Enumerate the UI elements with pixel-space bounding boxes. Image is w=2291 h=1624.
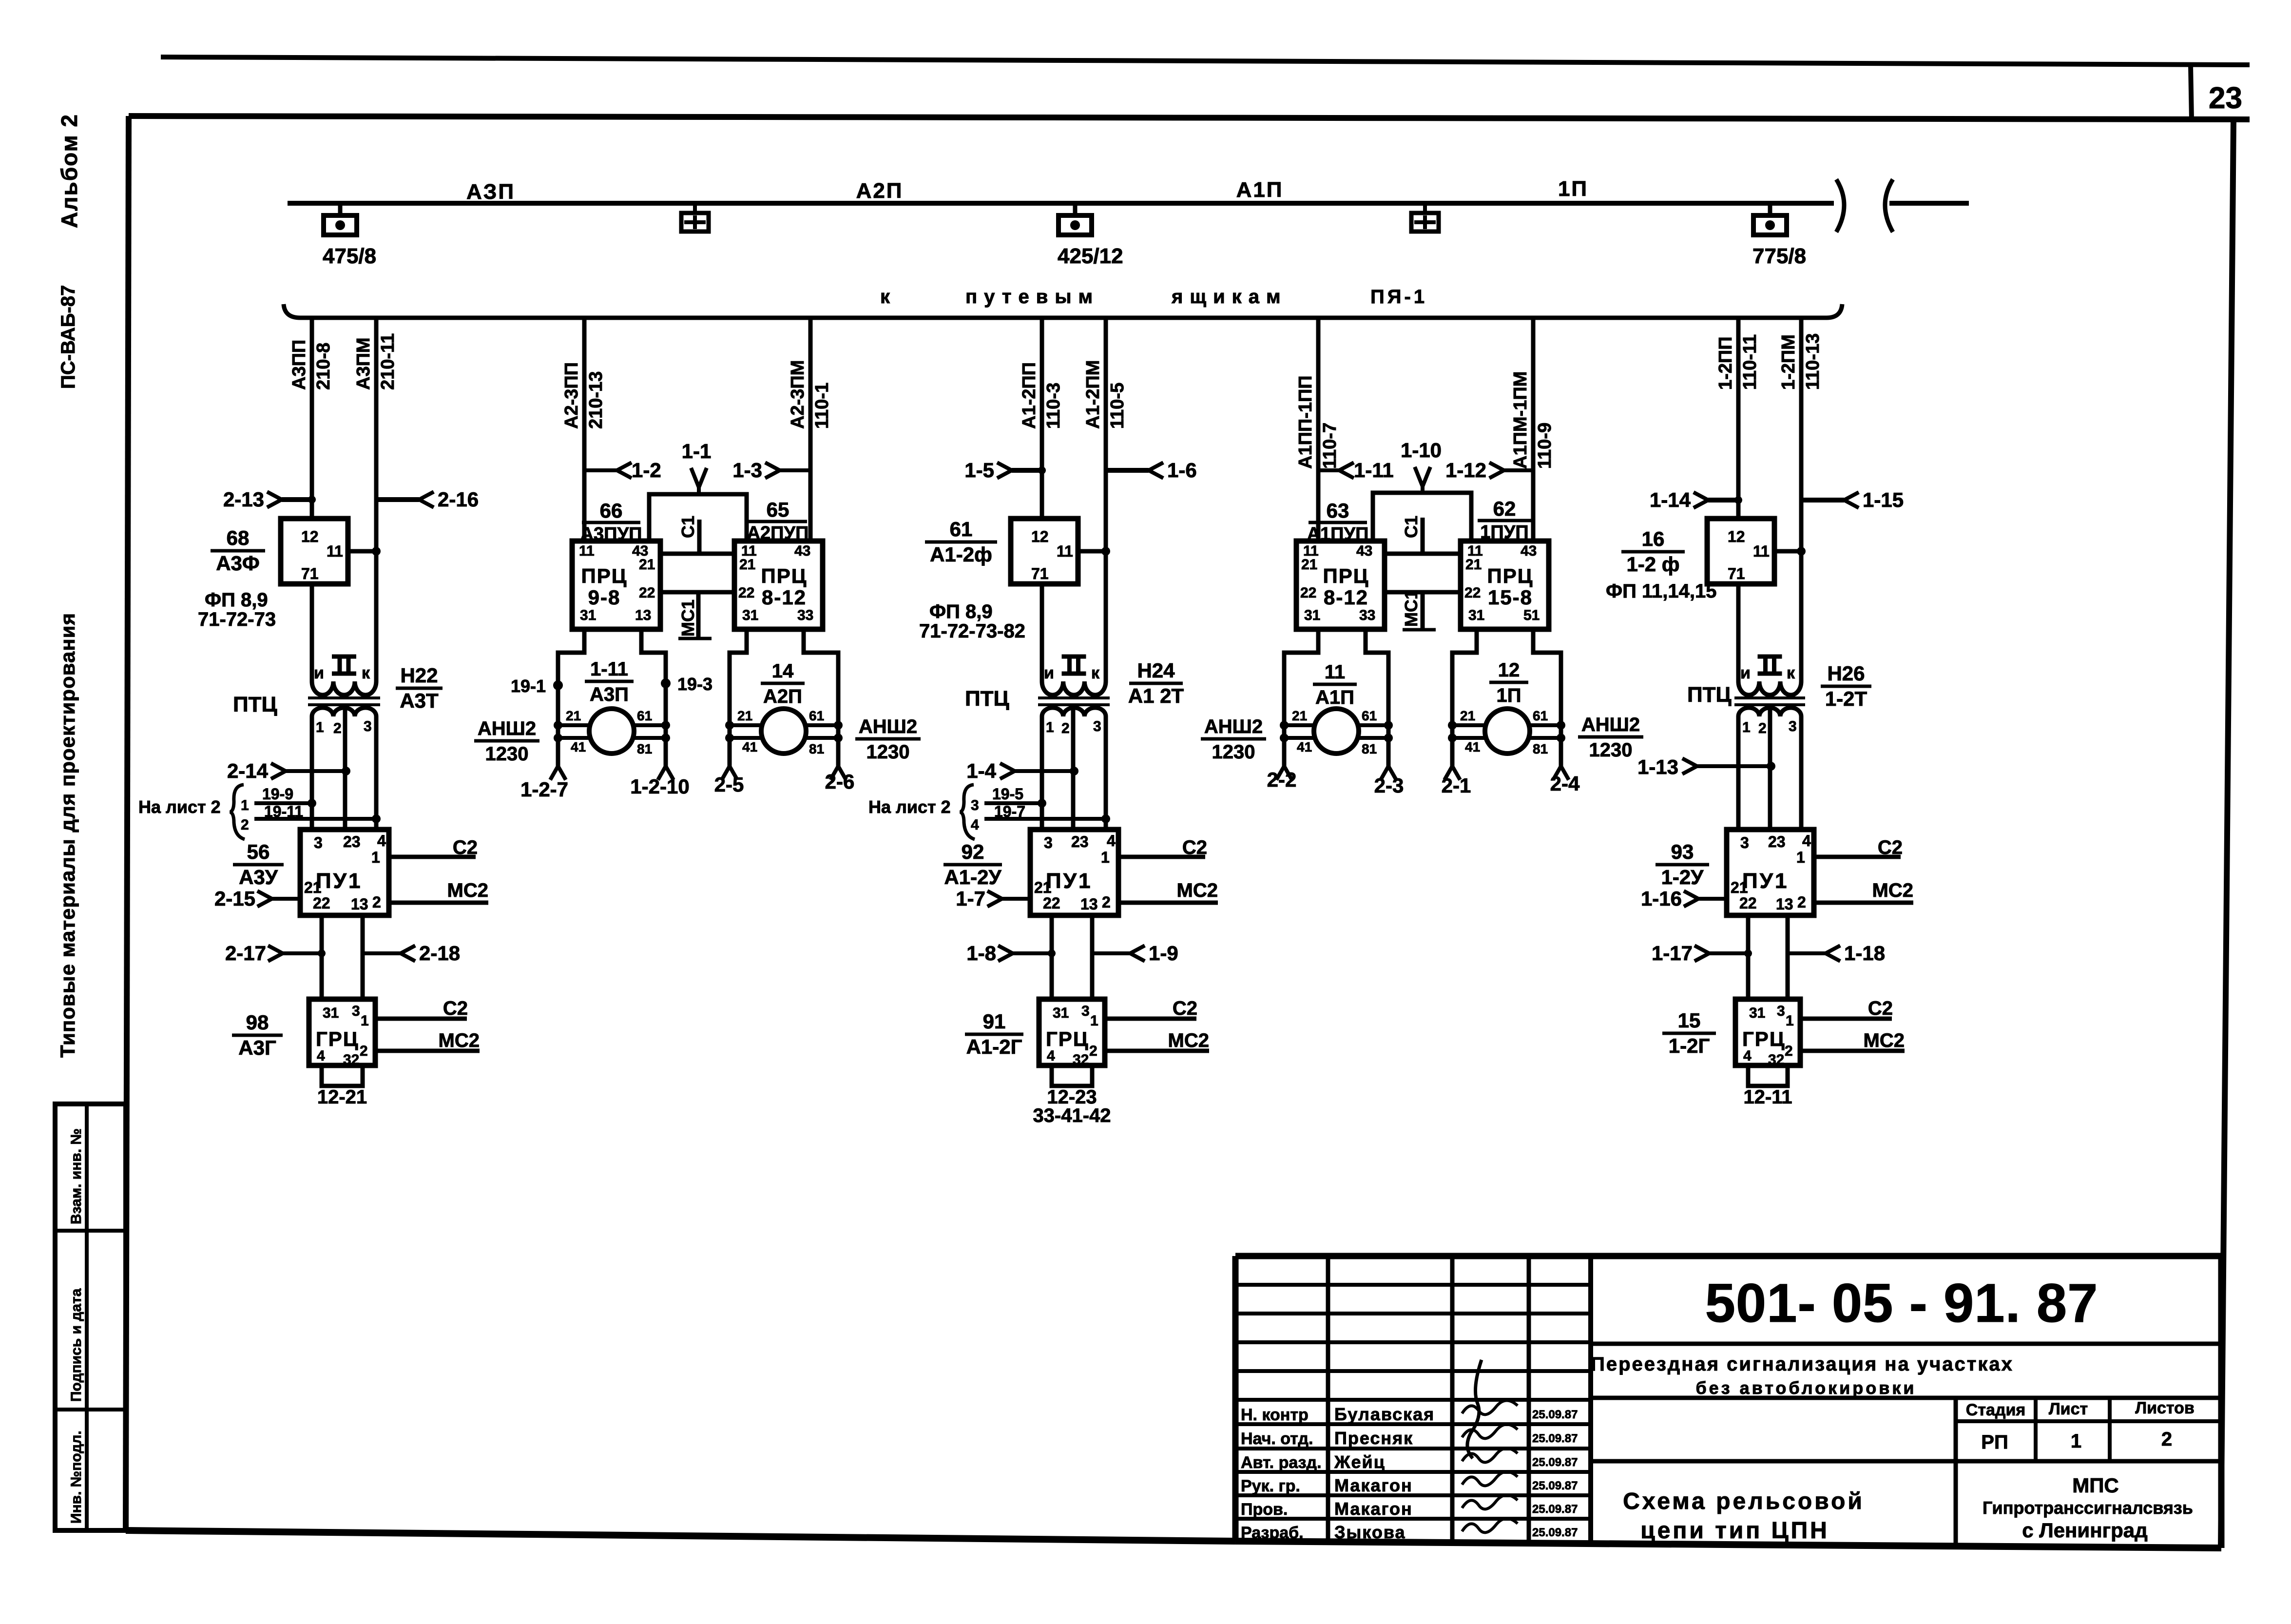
svg-text:1П: 1П	[1497, 685, 1521, 706]
svg-text:и: и	[1044, 664, 1054, 682]
svg-text:31: 31	[580, 607, 596, 623]
svg-text:2: 2	[333, 720, 342, 736]
svg-text:41: 41	[742, 739, 757, 754]
svg-text:1: 1	[361, 1013, 369, 1029]
svg-text:11: 11	[1057, 542, 1073, 560]
svg-text:21: 21	[1460, 708, 1475, 723]
svg-text:12: 12	[1728, 528, 1745, 545]
svg-text:2-1: 2-1	[1442, 774, 1471, 797]
svg-text:3: 3	[1789, 718, 1797, 735]
svg-text:3: 3	[314, 834, 323, 851]
svg-text:110-9: 110-9	[1535, 423, 1555, 469]
svg-text:68: 68	[227, 526, 250, 549]
svg-text:А1-2ПП: А1-2ПП	[1019, 362, 1040, 429]
svg-text:МС2: МС2	[1872, 880, 1913, 901]
svg-text:Пров.: Пров.	[1241, 1500, 1288, 1519]
svg-text:21: 21	[739, 557, 755, 573]
svg-text:1: 1	[2071, 1431, 2081, 1452]
svg-text:Пресняк: Пресняк	[1334, 1428, 1413, 1448]
svg-text:31: 31	[1304, 607, 1320, 623]
svg-text:32: 32	[1073, 1052, 1089, 1068]
svg-text:62: 62	[1493, 497, 1516, 520]
svg-text:61: 61	[1362, 708, 1377, 723]
svg-text:А3ПМ: А3ПМ	[353, 337, 374, 390]
svg-text:13: 13	[351, 895, 368, 913]
svg-text:11: 11	[579, 543, 595, 559]
svg-text:ПЯ-1: ПЯ-1	[1370, 286, 1427, 308]
svg-text:Рук. гр.: Рук. гр.	[1241, 1477, 1300, 1495]
svg-text:91: 91	[983, 1010, 1006, 1033]
svg-text:2-15: 2-15	[214, 887, 255, 910]
svg-text:ГРЦ: ГРЦ	[1046, 1027, 1089, 1050]
svg-text:Н24: Н24	[1137, 659, 1175, 682]
svg-text:1-10: 1-10	[1401, 439, 1442, 462]
svg-text:1ПУП: 1ПУП	[1480, 522, 1528, 542]
svg-text:Инв. №подл.: Инв. №подл.	[68, 1431, 84, 1524]
svg-text:ПТЦ: ПТЦ	[233, 693, 277, 716]
svg-text:Разраб.: Разраб.	[1241, 1524, 1304, 1542]
svg-text:А2П: А2П	[763, 686, 802, 707]
svg-text:к: к	[1091, 664, 1100, 682]
svg-text:12-11: 12-11	[1743, 1086, 1792, 1108]
svg-text:1-2Т: 1-2Т	[1825, 687, 1867, 710]
svg-text:21: 21	[1292, 708, 1307, 723]
svg-text:2-13: 2-13	[223, 488, 264, 511]
svg-text:С2: С2	[453, 837, 478, 858]
svg-text:3: 3	[364, 718, 372, 735]
svg-text:25.09.87: 25.09.87	[1532, 1456, 1578, 1469]
svg-text:32: 32	[1768, 1052, 1784, 1068]
svg-text:4: 4	[1047, 1048, 1055, 1064]
svg-text:Подпись и дата: Подпись и дата	[68, 1288, 84, 1402]
svg-text:МС2: МС2	[1177, 880, 1218, 901]
svg-text:81: 81	[809, 741, 824, 756]
svg-text:Стадия: Стадия	[1966, 1401, 2025, 1419]
svg-text:21: 21	[737, 708, 752, 723]
svg-text:1: 1	[1742, 719, 1751, 735]
svg-text:Переездная сигнализация на: Переездная сигнализация на участках	[1591, 1353, 2014, 1375]
svg-text:2: 2	[2161, 1429, 2172, 1450]
svg-text:и: и	[1740, 664, 1751, 682]
svg-text:775/8: 775/8	[1752, 244, 1806, 268]
svg-text:25.09.87: 25.09.87	[1532, 1526, 1578, 1539]
svg-text:71: 71	[1031, 565, 1049, 582]
svg-text:1-1: 1-1	[682, 440, 712, 463]
svg-text:без автоблокировки: без автоблокировки	[1695, 1378, 1916, 1398]
svg-text:1230: 1230	[866, 741, 910, 763]
svg-text:1-9: 1-9	[1149, 942, 1178, 965]
svg-text:1П: 1П	[1558, 177, 1588, 201]
svg-text:С2: С2	[1182, 837, 1207, 858]
svg-text:43: 43	[1356, 543, 1372, 559]
svg-text:А2ПУП: А2ПУП	[747, 523, 809, 543]
svg-text:22: 22	[1739, 894, 1757, 912]
svg-text:21: 21	[1465, 557, 1482, 573]
svg-text:ПРЦ: ПРЦ	[761, 564, 808, 587]
svg-text:2: 2	[1758, 720, 1767, 736]
svg-text:1-15: 1-15	[1863, 488, 1904, 511]
svg-text:12: 12	[301, 528, 319, 545]
svg-text:71-72-73-82: 71-72-73-82	[919, 620, 1025, 642]
svg-text:АНШ2: АНШ2	[1204, 716, 1263, 737]
svg-text:1: 1	[1796, 849, 1805, 866]
svg-text:МС2: МС2	[1168, 1030, 1209, 1051]
svg-text:Лист: Лист	[2049, 1400, 2088, 1418]
svg-text:66: 66	[600, 499, 623, 522]
svg-text:ФП 11,14,15: ФП 11,14,15	[1606, 580, 1717, 602]
svg-text:цепи тип ЦПН: цепи тип ЦПН	[1640, 1518, 1829, 1544]
svg-text:1230: 1230	[485, 743, 529, 765]
svg-text:Н22: Н22	[400, 664, 438, 687]
svg-text:8-12: 8-12	[762, 586, 807, 609]
svg-text:А1П: А1П	[1236, 178, 1284, 202]
svg-text:1-12: 1-12	[1445, 459, 1486, 482]
svg-text:13: 13	[1080, 895, 1098, 913]
svg-text:1-2ПП: 1-2ПП	[1715, 336, 1736, 390]
svg-text:Булавская: Булавская	[1334, 1404, 1435, 1424]
svg-text:1-11: 1-11	[590, 658, 628, 680]
svg-text:С2: С2	[1868, 998, 1893, 1019]
svg-text:2: 2	[1102, 893, 1111, 911]
svg-text:А3Ф: А3Ф	[216, 552, 260, 575]
svg-text:21: 21	[1301, 557, 1317, 573]
svg-text:98: 98	[246, 1011, 269, 1034]
svg-text:425/12: 425/12	[1058, 244, 1123, 268]
svg-text:МС2: МС2	[447, 880, 488, 901]
svg-text:21: 21	[639, 557, 655, 573]
svg-text:2: 2	[1785, 1043, 1793, 1059]
svg-text:Макагон: Макагон	[1334, 1499, 1413, 1519]
svg-text:Типовые материалы для пр: Типовые материалы для проектирования	[56, 613, 79, 1058]
svg-text:Нач. отд.: Нач. отд.	[1241, 1430, 1313, 1448]
svg-text:РП: РП	[1981, 1431, 2008, 1453]
svg-text:Альбом 2: Альбом 2	[57, 114, 82, 228]
svg-text:МС2: МС2	[439, 1030, 480, 1051]
svg-text:61: 61	[950, 518, 973, 541]
svg-text:41: 41	[1465, 739, 1480, 754]
svg-text:22: 22	[313, 894, 330, 912]
svg-text:2-16: 2-16	[438, 488, 479, 511]
svg-text:475/8: 475/8	[323, 244, 376, 268]
svg-text:МПС: МПС	[2072, 1474, 2119, 1497]
svg-text:2-18: 2-18	[419, 942, 460, 965]
svg-text:19-9: 19-9	[262, 785, 293, 803]
svg-text:1-2У: 1-2У	[1661, 866, 1704, 889]
svg-text:3: 3	[1093, 718, 1101, 735]
svg-text:11: 11	[1325, 661, 1345, 683]
svg-text:На лист 2: На лист 2	[138, 797, 221, 817]
svg-text:81: 81	[1362, 741, 1377, 756]
svg-text:ФП 8,9: ФП 8,9	[929, 601, 993, 622]
svg-text:12-21: 12-21	[317, 1086, 367, 1108]
svg-text:А1ПП-1ПП: А1ПП-1ПП	[1295, 375, 1316, 469]
svg-text:С1: С1	[1401, 516, 1421, 538]
svg-text:56: 56	[247, 840, 270, 863]
svg-text:22: 22	[1464, 585, 1481, 601]
svg-text:23: 23	[1071, 833, 1089, 851]
svg-text:63: 63	[1327, 499, 1349, 522]
svg-text:4: 4	[317, 1048, 325, 1064]
svg-text:А3Т: А3Т	[400, 689, 439, 712]
svg-text:Листов: Листов	[2135, 1399, 2195, 1417]
svg-text:43: 43	[1521, 543, 1537, 559]
svg-text:А1-2ПМ: А1-2ПМ	[1083, 360, 1103, 429]
svg-text:ПТЦ: ПТЦ	[1687, 683, 1732, 707]
svg-text:1-11: 1-11	[1354, 459, 1394, 482]
svg-text:1-2-7: 1-2-7	[520, 778, 568, 801]
svg-text:к: к	[1787, 664, 1795, 682]
svg-text:22: 22	[1300, 585, 1316, 601]
svg-text:А2-3ПМ: А2-3ПМ	[788, 360, 808, 429]
svg-text:22: 22	[639, 585, 655, 601]
svg-text:1: 1	[371, 849, 380, 866]
svg-text:МС1: МС1	[1401, 590, 1421, 627]
svg-text:А3ПУП: А3ПУП	[580, 524, 642, 544]
svg-text:ПРЦ: ПРЦ	[1487, 564, 1534, 587]
svg-text:19-5: 19-5	[992, 785, 1023, 803]
svg-text:А3У: А3У	[239, 866, 278, 889]
svg-text:31: 31	[323, 1005, 339, 1021]
svg-text:210-11: 210-11	[378, 333, 398, 390]
svg-text:11: 11	[327, 542, 343, 560]
svg-text:А3ПП: А3ПП	[289, 340, 309, 390]
svg-text:81: 81	[1533, 741, 1548, 756]
svg-text:1-2Г: 1-2Г	[1669, 1034, 1710, 1057]
svg-text:23: 23	[2209, 81, 2242, 115]
svg-text:ящикам: ящикам	[1171, 286, 1288, 308]
svg-text:А1ПУП: А1ПУП	[1307, 524, 1369, 544]
svg-text:АНШ2: АНШ2	[478, 718, 536, 739]
svg-text:1: 1	[316, 719, 324, 735]
svg-text:93: 93	[1671, 840, 1694, 863]
svg-text:110-7: 110-7	[1320, 423, 1340, 469]
svg-text:23: 23	[343, 833, 361, 851]
svg-text:1: 1	[1090, 1013, 1098, 1029]
svg-text:110-3: 110-3	[1043, 383, 1064, 429]
svg-text:1230: 1230	[1212, 741, 1255, 763]
svg-text:1-8: 1-8	[966, 942, 996, 965]
svg-text:71-72-73: 71-72-73	[198, 609, 276, 630]
svg-text:23: 23	[1768, 833, 1786, 851]
svg-text:ПУ1: ПУ1	[1046, 869, 1092, 893]
svg-text:1-13: 1-13	[1637, 755, 1678, 778]
svg-text:2-4: 2-4	[1550, 772, 1580, 795]
svg-text:Макагон: Макагон	[1334, 1475, 1413, 1495]
svg-text:1-2 ф: 1-2 ф	[1626, 553, 1679, 576]
svg-text:Жейц: Жейц	[1334, 1452, 1386, 1472]
svg-text:41: 41	[571, 739, 586, 754]
svg-text:19-11: 19-11	[264, 803, 303, 820]
svg-text:110-13: 110-13	[1803, 333, 1823, 390]
svg-text:2-6: 2-6	[825, 770, 855, 793]
svg-text:С2: С2	[1173, 998, 1197, 1019]
svg-text:ПС-ВАБ-87: ПС-ВАБ-87	[58, 285, 79, 389]
svg-text:На лист 2: На лист 2	[868, 797, 951, 817]
svg-text:А1-2Г: А1-2Г	[966, 1035, 1022, 1058]
svg-text:1230: 1230	[1589, 739, 1633, 761]
svg-text:32: 32	[343, 1052, 359, 1068]
svg-text:АЗП: АЗП	[466, 180, 515, 204]
svg-text:АНШ2: АНШ2	[859, 716, 917, 737]
svg-text:с Ленинград: с Ленинград	[2022, 1519, 2148, 1542]
svg-text:Н. контр: Н. контр	[1241, 1406, 1309, 1424]
svg-text:65: 65	[767, 498, 789, 521]
svg-text:71: 71	[1728, 565, 1745, 582]
svg-text:210-8: 210-8	[313, 343, 334, 390]
svg-text:А1П: А1П	[1315, 687, 1354, 708]
svg-text:А3Г: А3Г	[238, 1036, 276, 1059]
svg-text:ПУ1: ПУ1	[316, 869, 362, 893]
svg-text:1: 1	[1046, 719, 1054, 735]
svg-text:61: 61	[809, 708, 824, 723]
svg-text:А1-2ф: А1-2ф	[930, 543, 992, 566]
svg-text:ФП 8,9: ФП 8,9	[205, 589, 268, 611]
svg-text:Взам. инв. №: Взам. инв. №	[68, 1128, 84, 1224]
svg-text:31: 31	[1053, 1005, 1069, 1021]
svg-text:210-13: 210-13	[586, 371, 606, 429]
svg-text:33: 33	[797, 607, 813, 623]
svg-text:1: 1	[241, 797, 249, 813]
svg-text:А1 2Т: А1 2Т	[1128, 684, 1184, 707]
svg-text:1-5: 1-5	[964, 459, 994, 482]
svg-text:А3П: А3П	[590, 684, 629, 705]
svg-text:и: и	[314, 664, 324, 682]
svg-text:2-2: 2-2	[1267, 768, 1297, 791]
svg-text:С2: С2	[443, 998, 468, 1019]
svg-text:61: 61	[637, 708, 652, 723]
svg-text:13: 13	[1776, 895, 1793, 913]
svg-text:путевым: путевым	[965, 286, 1099, 308]
svg-text:43: 43	[794, 543, 810, 559]
svg-text:А1-2У: А1-2У	[944, 866, 1001, 889]
svg-text:2-17: 2-17	[225, 942, 266, 965]
svg-text:2-5: 2-5	[714, 773, 744, 796]
svg-text:110-11: 110-11	[1740, 334, 1760, 390]
svg-text:71: 71	[301, 565, 319, 582]
svg-text:61: 61	[1533, 708, 1548, 723]
svg-text:3: 3	[1081, 1003, 1090, 1019]
svg-text:15: 15	[1678, 1009, 1701, 1032]
svg-text:АНШ2: АНШ2	[1581, 714, 1640, 735]
svg-text:11: 11	[1753, 542, 1770, 560]
svg-text:25.09.87: 25.09.87	[1532, 1408, 1578, 1421]
svg-text:12: 12	[1498, 659, 1520, 681]
svg-text:1-14: 1-14	[1650, 488, 1691, 511]
svg-text:4: 4	[971, 817, 979, 833]
svg-text:2-3: 2-3	[1374, 774, 1404, 797]
svg-text:92: 92	[962, 840, 984, 863]
svg-text:С2: С2	[1878, 837, 1903, 858]
svg-text:8-12: 8-12	[1324, 586, 1368, 609]
svg-text:16: 16	[1642, 527, 1665, 550]
svg-text:ПТЦ: ПТЦ	[965, 687, 1009, 711]
svg-text:1-2ПМ: 1-2ПМ	[1778, 334, 1799, 390]
svg-text:21: 21	[566, 708, 581, 723]
svg-text:31: 31	[742, 607, 758, 623]
svg-text:Зыкова: Зыкова	[1334, 1522, 1406, 1542]
svg-text:19-1: 19-1	[511, 676, 546, 696]
svg-text:110-5: 110-5	[1107, 383, 1128, 429]
svg-text:25.09.87: 25.09.87	[1532, 1432, 1578, 1445]
svg-text:2: 2	[1061, 720, 1070, 736]
svg-text:ГРЦ: ГРЦ	[1742, 1027, 1786, 1050]
svg-text:1-4: 1-4	[966, 759, 996, 782]
svg-text:501- 05 - 91. 87: 501- 05 - 91. 87	[1705, 1273, 2098, 1334]
svg-text:1-6: 1-6	[1167, 459, 1197, 482]
svg-text:33-41-42: 33-41-42	[1033, 1105, 1111, 1126]
svg-text:Схема рельсовой: Схема рельсовой	[1623, 1489, 1865, 1514]
svg-text:Н26: Н26	[1827, 662, 1865, 685]
svg-text:1-18: 1-18	[1844, 942, 1885, 965]
svg-text:А1ПМ-1ПМ: А1ПМ-1ПМ	[1510, 371, 1531, 469]
svg-text:22: 22	[738, 585, 754, 601]
svg-text:2: 2	[1797, 893, 1806, 911]
svg-text:2: 2	[360, 1043, 368, 1059]
svg-text:4: 4	[1802, 832, 1811, 850]
svg-text:А2П: А2П	[856, 179, 904, 203]
svg-text:41: 41	[1297, 739, 1312, 754]
svg-text:81: 81	[637, 741, 652, 756]
svg-text:4: 4	[377, 832, 386, 850]
svg-text:Гипротранссигналсвязь: Гипротранссигналсвязь	[1983, 1498, 2193, 1518]
svg-text:А2-3ПП: А2-3ПП	[561, 362, 582, 429]
svg-text:2: 2	[1089, 1043, 1097, 1059]
svg-text:к: к	[880, 286, 890, 308]
svg-text:МС2: МС2	[1864, 1030, 1905, 1051]
svg-text:19-7: 19-7	[994, 803, 1025, 820]
svg-text:1-3: 1-3	[732, 459, 762, 482]
svg-text:ПРЦ: ПРЦ	[1323, 564, 1369, 587]
svg-text:4: 4	[1107, 832, 1116, 850]
svg-text:3: 3	[1044, 834, 1053, 851]
svg-text:33: 33	[1359, 607, 1375, 623]
svg-text:ПУ1: ПУ1	[1742, 869, 1789, 893]
svg-text:Авт. разд.: Авт. разд.	[1241, 1453, 1322, 1472]
svg-text:3: 3	[352, 1003, 360, 1019]
svg-text:9-8: 9-8	[588, 586, 621, 609]
svg-text:1-17: 1-17	[1652, 942, 1693, 965]
svg-text:25.09.87: 25.09.87	[1532, 1479, 1578, 1492]
svg-text:15-8: 15-8	[1488, 586, 1533, 609]
svg-text:25.09.87: 25.09.87	[1532, 1503, 1578, 1516]
svg-text:3: 3	[1740, 834, 1749, 851]
svg-text:31: 31	[1468, 607, 1484, 623]
svg-text:110-1: 110-1	[812, 383, 832, 429]
svg-text:1-2-10: 1-2-10	[630, 775, 689, 798]
svg-text:3: 3	[1777, 1003, 1785, 1019]
svg-text:С1: С1	[678, 516, 698, 538]
svg-text:ГРЦ: ГРЦ	[316, 1027, 359, 1050]
svg-text:МС1: МС1	[678, 599, 698, 637]
svg-text:51: 51	[1523, 607, 1540, 623]
svg-text:19-3: 19-3	[677, 674, 712, 694]
svg-text:12: 12	[1031, 528, 1049, 545]
svg-text:22: 22	[1043, 894, 1060, 912]
svg-text:1-2: 1-2	[632, 459, 661, 482]
svg-text:1-16: 1-16	[1641, 887, 1682, 910]
svg-text:13: 13	[635, 607, 651, 623]
svg-text:1: 1	[1101, 849, 1110, 866]
svg-text:3: 3	[971, 797, 979, 813]
svg-text:к: к	[362, 664, 370, 682]
svg-text:14: 14	[772, 660, 794, 682]
svg-text:2: 2	[372, 893, 381, 911]
svg-text:1-7: 1-7	[956, 887, 985, 910]
svg-text:2: 2	[241, 817, 249, 833]
svg-text:31: 31	[1749, 1005, 1765, 1021]
svg-text:ПРЦ: ПРЦ	[581, 564, 628, 587]
svg-text:4: 4	[1743, 1048, 1752, 1064]
